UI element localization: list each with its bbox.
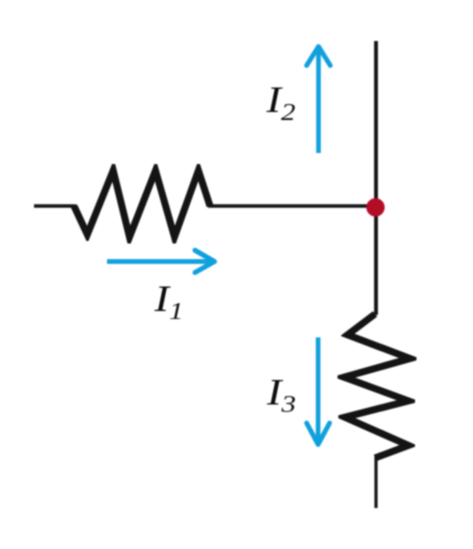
svg-text:I3: I3 [266, 371, 296, 417]
svg-text:I1: I1 [153, 278, 183, 324]
svg-text:I2: I2 [265, 79, 295, 125]
